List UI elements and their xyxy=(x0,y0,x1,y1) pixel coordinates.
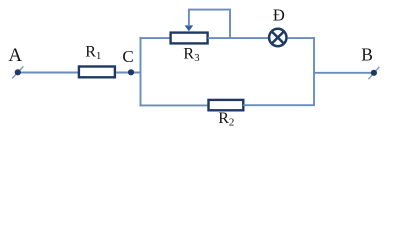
label C xyxy=(122,47,133,66)
node C junction dot xyxy=(128,69,134,75)
wire right vertical to B xyxy=(314,72,374,74)
svg-text:Đ: Đ xyxy=(273,6,285,25)
label R3 xyxy=(183,46,200,65)
resistor R3 (rheostat body) xyxy=(171,33,208,44)
wire wiper loop xyxy=(189,10,230,38)
svg-text:R1: R1 xyxy=(85,43,101,62)
label R2 xyxy=(218,110,234,129)
wire bottom-left to R2 xyxy=(139,104,208,106)
label A xyxy=(8,45,22,66)
terminal A xyxy=(12,66,23,78)
resistor R1 xyxy=(79,67,115,78)
wire lamp to right vertical xyxy=(288,37,315,39)
label B xyxy=(361,45,373,65)
svg-text:C: C xyxy=(122,47,133,66)
wire R1 to node C and left vertical xyxy=(116,72,141,74)
wire R2 to bottom-right xyxy=(243,104,314,106)
svg-text:R2: R2 xyxy=(218,110,234,129)
wire top-left to R3 xyxy=(139,37,170,39)
label D (lamp) xyxy=(273,6,285,25)
lamp D xyxy=(269,29,286,46)
wire R3 to lamp xyxy=(208,37,269,39)
svg-text:A: A xyxy=(8,45,22,66)
svg-text:R3: R3 xyxy=(183,46,200,65)
wire A to R1 xyxy=(18,72,78,74)
wiper arrow of R3 xyxy=(185,25,194,31)
wire right vertical branch xyxy=(313,37,315,106)
label R1 xyxy=(85,43,101,62)
wire left vertical branch xyxy=(140,37,142,106)
resistor R2 xyxy=(209,100,244,110)
svg-text:B: B xyxy=(361,45,373,65)
terminal B xyxy=(368,67,379,79)
